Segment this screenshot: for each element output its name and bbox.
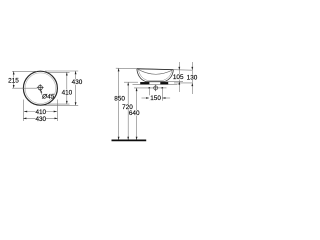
svg-text:215: 215 <box>8 77 19 84</box>
svg-text:430: 430 <box>72 79 83 86</box>
svg-text:150: 150 <box>150 95 161 102</box>
svg-text:105: 105 <box>173 74 184 81</box>
svg-text:430: 430 <box>35 116 46 123</box>
svg-text:640: 640 <box>129 110 140 117</box>
svg-text:130: 130 <box>187 74 198 81</box>
svg-text:Ø45: Ø45 <box>41 93 55 100</box>
svg-text:850: 850 <box>114 96 125 103</box>
svg-text:410: 410 <box>62 89 73 96</box>
